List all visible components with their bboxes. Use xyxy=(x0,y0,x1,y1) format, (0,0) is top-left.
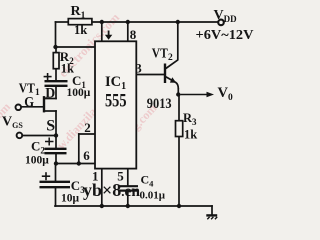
ground symbol xyxy=(206,215,217,219)
junction dot R3 on rail xyxy=(177,204,181,208)
wire R3 top lead xyxy=(178,95,180,121)
wire pin7 from R2 node to IC xyxy=(56,46,96,48)
transistor VT1 channel bar xyxy=(43,97,45,111)
transistor Q1 VT2 base bar xyxy=(164,64,166,84)
capacitor C4 plates xyxy=(119,186,138,190)
svg-text:+6V~12V: +6V~12V xyxy=(196,28,254,43)
svg-text:10μ: 10μ xyxy=(61,193,80,205)
transistor VT2 emitter diagonal xyxy=(166,77,179,89)
wire VT1 drain horizontal to channel xyxy=(44,98,56,100)
wire pin1 vertical xyxy=(101,169,103,206)
svg-text:VT: VT xyxy=(152,45,168,60)
resistor R2 xyxy=(53,53,59,69)
wire left vertical from top corner down to R2 node xyxy=(55,22,57,47)
wire pin4 vertical xyxy=(101,22,103,41)
svg-text:2: 2 xyxy=(84,120,91,135)
wire top-left from corner to R1 xyxy=(56,21,70,23)
transistor VT2 collector diagonal xyxy=(166,60,178,69)
wire VT2 collector vertical to top rail xyxy=(177,22,179,60)
svg-text:S: S xyxy=(46,118,55,135)
svg-text:6: 6 xyxy=(83,148,90,163)
junction dot pin1 on rail xyxy=(100,204,104,208)
label pin 4 (arrow-like degraded glyph) xyxy=(105,31,112,40)
wire pin2 horizontal to IC xyxy=(79,133,95,135)
svg-text:1: 1 xyxy=(35,88,40,98)
transistor VT2 emitter arrowhead xyxy=(170,77,176,83)
wire top rail from R1 to VDD terminal xyxy=(92,21,220,23)
svg-text:100μ: 100μ xyxy=(67,87,91,99)
terminal circle VDD xyxy=(218,20,224,26)
wire node down to C3 xyxy=(55,164,57,182)
wire C3 bottom to ground rail xyxy=(55,188,57,207)
wire R2 bottom lead to C1 xyxy=(55,69,57,81)
capacitor C2 plates xyxy=(45,149,67,153)
wire ground stub xyxy=(211,206,213,214)
junction dot pin8 on rail xyxy=(126,20,130,24)
wire C2 bottom to pin2/6 node xyxy=(55,154,57,164)
junction dot VGS-source node xyxy=(54,133,58,137)
wire VT1 drain vertical from C1 bottom plate xyxy=(55,86,57,99)
svg-text:2: 2 xyxy=(168,53,173,63)
junction dot R2 node xyxy=(53,45,57,49)
capacitor C2 plus sign xyxy=(45,138,54,146)
svg-text:1k: 1k xyxy=(184,128,197,142)
resistor R1 xyxy=(68,19,92,25)
svg-text:0.01μ: 0.01μ xyxy=(140,189,166,201)
svg-text:VT: VT xyxy=(19,80,35,95)
svg-text:1k: 1k xyxy=(74,23,87,37)
wire R3 bottom lead to rail xyxy=(178,137,180,207)
background paper xyxy=(0,0,258,222)
capacitor C3 plus sign xyxy=(42,172,50,180)
wire pin8 vertical xyxy=(127,22,129,41)
wire pin3 to VT2 base xyxy=(136,74,164,76)
wire R2 top lead xyxy=(55,47,57,53)
output Vo arrow xyxy=(181,92,215,98)
wire VT1 source vertical down xyxy=(55,111,57,136)
wire pin6 from node to IC xyxy=(56,163,95,165)
svg-text:9013: 9013 xyxy=(147,96,172,112)
wire pin2 vertical xyxy=(78,134,80,164)
wire source node down to C2 xyxy=(55,136,57,149)
IC U1 555 box xyxy=(95,41,136,168)
capacitor C3 plates xyxy=(40,182,71,187)
svg-text:3: 3 xyxy=(135,60,142,75)
svg-text:G: G xyxy=(24,94,34,110)
svg-text:8: 8 xyxy=(130,27,137,42)
svg-text:100μ: 100μ xyxy=(25,155,49,167)
junction dot pin2/pin6 tie xyxy=(77,161,81,165)
junction dot C4 on rail xyxy=(126,204,130,208)
capacitor C1 plus sign xyxy=(44,73,52,80)
wire VT1 gate from G terminal xyxy=(22,106,44,108)
wire VT1 source horizontal xyxy=(44,110,56,112)
junction dot emitter output node xyxy=(176,92,180,96)
wire C4 bottom to ground rail xyxy=(127,191,129,206)
svg-text:D: D xyxy=(45,86,55,102)
svg-text:555: 555 xyxy=(105,92,127,112)
junction dot collector on rail xyxy=(176,20,180,24)
terminal circle VGS lower xyxy=(17,133,23,139)
wire VT2 emitter vertical to output node xyxy=(177,89,179,95)
capacitor C1 plates xyxy=(45,81,68,86)
svg-text:yb×8.en: yb×8.en xyxy=(83,180,140,200)
resistor R3 xyxy=(176,121,183,137)
wire VGS lower terminal to source column xyxy=(23,135,57,137)
junction dot pin4 on rail xyxy=(100,20,104,24)
terminal circle gate input xyxy=(15,105,21,111)
junction dot C2 bottom node xyxy=(54,161,58,165)
wire pin5 vertical to C4 xyxy=(127,169,129,186)
wire bottom ground rail xyxy=(55,205,212,207)
